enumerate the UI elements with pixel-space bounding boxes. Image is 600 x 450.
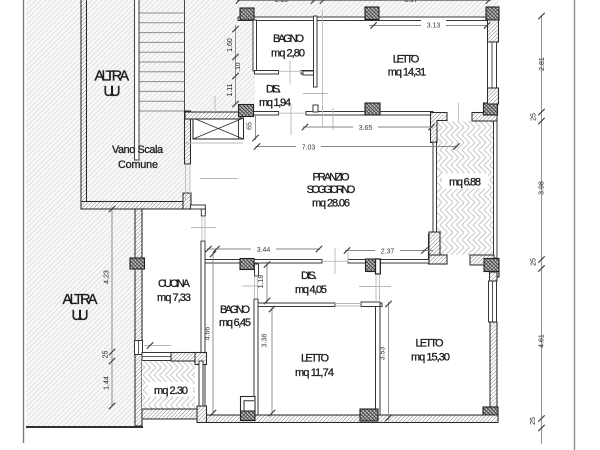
svg-text:3.44: 3.44 (257, 247, 271, 254)
svg-text:3.38: 3.38 (262, 334, 269, 348)
balcony top-left hatch (431, 113, 448, 143)
svg-text:1.18: 1.18 (258, 275, 265, 289)
wall bagno/letto V7 (314, 16, 318, 87)
svg-text:1.60: 1.60 (227, 38, 234, 52)
balcony west rail (433, 142, 437, 234)
svg-text:1.15: 1.15 (274, 0, 288, 4)
wall stub below P8 (255, 264, 259, 276)
svg-text:LETTO: LETTO (301, 353, 329, 365)
svg-text:UIU: UIU (104, 84, 121, 100)
wall top exterior H1 (238, 17, 499, 21)
svg-text:BAGNO: BAGNO (273, 33, 304, 45)
wall hatched band west of corridor (185, 112, 240, 119)
wall bagno west T1 (253, 20, 257, 71)
svg-text:PRANZIO: PRANZIO (313, 172, 350, 184)
corner wall SW of letto11 (197, 406, 207, 423)
wall stair south band (81, 202, 191, 210)
balcony 6.88 floor (437, 121, 494, 255)
wall letto15 east: hatch, window, hatch (490, 272, 498, 281)
pier P2 (365, 7, 379, 20)
svg-text:mq 1,94: mq 1,94 (259, 97, 291, 109)
pier P3 (486, 7, 499, 20)
svg-text:mq 28.06: mq 28.06 (312, 197, 350, 209)
svg-text:mq 6,45: mq 6,45 (219, 317, 251, 329)
hatched neighbour area (ALTRA UIU + stair block + top strip) (26, 0, 499, 426)
door leaf bagno (241, 397, 256, 412)
door swing and auxiliary light lines (144, 10, 459, 346)
dimension 3.38 (262, 306, 276, 416)
svg-text:3.98: 3.98 (539, 181, 546, 195)
pier P12 (360, 409, 378, 421)
dimension 7.03 (254, 141, 460, 152)
balcony west hatch block (429, 234, 437, 264)
wall pranzio south H4b (348, 260, 430, 264)
svg-text:25: 25 (531, 113, 538, 121)
svg-text:mq 6.88: mq 6.88 (449, 177, 481, 189)
window letto14 east (488, 42, 497, 88)
dimension 4.66 (205, 251, 217, 416)
elevator (193, 118, 244, 139)
svg-text:UIU: UIU (72, 308, 89, 324)
wall cucina east V5 top (191, 205, 206, 209)
balcony 2.30 east wall hatch (195, 353, 207, 365)
wall stub below letto wall (313, 105, 318, 112)
balcony 2.30 floor (142, 361, 195, 410)
svg-text:Vano Scala: Vano Scala (112, 144, 163, 156)
svg-text:CUCINA: CUCINA (158, 278, 191, 290)
dimension 3.53 (380, 301, 392, 421)
wall cucina east V5 bottom (201, 241, 205, 415)
svg-text:4.66: 4.66 (205, 327, 212, 341)
svg-text:mq 2,80: mq 2,80 (271, 48, 305, 60)
dimension 2.37 (344, 245, 433, 256)
pier P13 (483, 407, 498, 420)
left boundary line (23, 0, 25, 443)
wall corridor north H3a (253, 112, 279, 116)
dimension 3.65 (302, 122, 435, 132)
wall cucina west V4 (135, 209, 142, 426)
stair rail (135, 0, 140, 160)
stair east edge line (184, 0, 186, 113)
room labels (63, 69, 130, 325)
bottom wall H7 (197, 415, 498, 423)
svg-text:3.53: 3.53 (380, 347, 387, 361)
pier P4 (239, 105, 254, 117)
dimension right chain (530, 13, 546, 444)
balcony south wall (470, 255, 494, 265)
svg-text:25: 25 (531, 258, 538, 266)
window cucina west (135, 341, 143, 355)
svg-text:ALTRA: ALTRA (63, 292, 98, 308)
svg-text:mq 7,33: mq 7,33 (157, 292, 191, 304)
pier P8 (240, 259, 254, 270)
svg-text:Comune: Comune (118, 159, 158, 171)
pier P5 (365, 103, 380, 115)
wall stair west (81, 0, 87, 207)
wall letto14 east lower hatch (488, 88, 499, 104)
wall stair east (185, 111, 191, 164)
right border line (574, 0, 576, 450)
svg-text:LETTO: LETTO (393, 54, 420, 66)
pier P9 (366, 259, 376, 272)
dimension left chain (103, 206, 116, 409)
wall V10 hatched (429, 232, 440, 256)
svg-text:mq 15,30: mq 15,30 (411, 352, 450, 364)
wall end bar right of P9 (376, 259, 381, 274)
svg-text:25: 25 (103, 351, 110, 359)
dimension 3.44 (205, 244, 322, 255)
wall letto14 east upper hatch (488, 20, 499, 42)
svg-text:mq 2.30: mq 2.30 (154, 385, 188, 397)
dimension top clipped (236, 0, 492, 4)
bottom edge of lower ALTRA UIU block (26, 426, 143, 428)
label halo mq 6.88 (442, 174, 488, 189)
wall pranzio south H4a (203, 260, 322, 264)
pier P1 (240, 8, 254, 20)
svg-text:BAGNO: BAGNO (220, 304, 250, 316)
svg-text:3.17: 3.17 (404, 0, 418, 4)
pier P11 (241, 411, 256, 421)
wall letto15 cap (361, 302, 380, 307)
balcony 2.30 east doorway (199, 361, 203, 406)
svg-text:LETTO: LETTO (416, 338, 444, 350)
svg-text:7.03: 7.03 (302, 145, 316, 152)
wall niche stub (303, 71, 314, 75)
svg-text:ALTRA: ALTRA (95, 69, 130, 85)
pier P7 (130, 258, 145, 269)
label halo mq 2.30 (148, 382, 193, 397)
svg-text:2.81: 2.81 (539, 57, 546, 71)
svg-text:1.11: 1.11 (227, 83, 234, 96)
svg-text:3.65: 3.65 (359, 125, 373, 132)
wall bagno south H2b (301, 71, 317, 75)
wall letto15 west V8 (376, 302, 381, 420)
svg-text:mq 14,31: mq 14,31 (388, 66, 427, 78)
balcony west foot (437, 255, 448, 264)
svg-text:65: 65 (247, 122, 254, 130)
pier P6 (484, 103, 498, 115)
tick on cucina window dim (147, 342, 153, 348)
balcony top wall right (472, 113, 497, 122)
balcony east rail (494, 121, 498, 258)
svg-text:4.61: 4.61 (539, 334, 546, 348)
svg-text:3.13: 3.13 (427, 23, 441, 30)
svg-text:mq 4,05: mq 4,05 (295, 284, 327, 296)
dimension 1.18 (258, 261, 270, 304)
svg-text:DIS.: DIS. (301, 270, 317, 282)
svg-text:.10: .10 (235, 62, 242, 71)
balcony 2.30 south wall (142, 409, 206, 419)
pier P10 L-shape (484, 259, 499, 272)
dimension mini chain top-left (227, 25, 242, 107)
dimension 3.13 (369, 20, 490, 30)
balcony 2.30 north wall hatch (171, 353, 206, 362)
stairs steps (139, 13, 185, 111)
svg-text:mq 11,74: mq 11,74 (295, 367, 334, 379)
wall letto11 west V6 (254, 299, 258, 415)
svg-text:1.44: 1.44 (104, 376, 111, 390)
balcony 2.30 north wall window (142, 353, 171, 361)
svg-text:25: 25 (530, 417, 537, 425)
wall bagno south H2a (255, 71, 279, 75)
wall dis south H5b (361, 303, 382, 307)
wall letto south H3b (306, 112, 433, 116)
dimension 65 (247, 115, 259, 141)
svg-text:2.37: 2.37 (381, 249, 395, 256)
svg-text:4.23: 4.23 (104, 270, 111, 284)
svg-text:SOGGIORNO: SOGGIORNO (307, 184, 356, 196)
wall dis south H5a (258, 303, 335, 307)
svg-text:DIS.: DIS. (266, 84, 281, 96)
wall stair south jog (183, 193, 191, 209)
